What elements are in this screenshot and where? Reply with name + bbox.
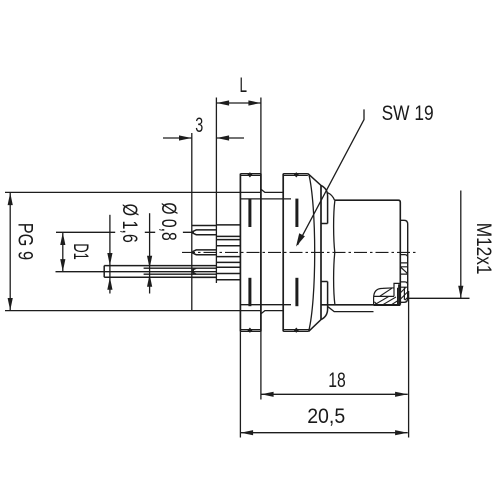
arrow SW19 leader — [296, 233, 305, 246]
pin 2 (middle) — [193, 250, 216, 255]
dim line 18 — [261, 393, 408, 395]
nut right face — [320, 185, 322, 319]
flange tick diamond bottom — [247, 328, 252, 333]
flange groove bar top — [248, 199, 251, 227]
svg-text:20,5: 20,5 — [307, 405, 345, 428]
ext lines PG9 — [5, 192, 261, 310]
leader SW19 — [298, 109, 365, 245]
seal bulge arc — [334, 200, 335, 305]
svg-text:3: 3 — [195, 114, 203, 137]
flange tick diamond top — [247, 172, 252, 177]
wire Ø0,8 core inner — [144, 268, 217, 274]
arrows 20,5 — [241, 430, 254, 435]
ext line right end 18/20,5 — [408, 291, 410, 438]
seal bottom edge — [328, 307, 374, 312]
dim line M12x1 — [460, 191, 462, 299]
dim line 3 — [163, 137, 244, 139]
nut tick diamond bottom — [294, 328, 299, 333]
pin 1 (top, Ø0,8) — [193, 230, 216, 235]
wire Ø1,6 tube outer — [104, 266, 216, 278]
nut groove bar top — [295, 199, 298, 227]
dim line L — [216, 102, 261, 104]
PG9 neck — [240, 189, 291, 313]
arrows PG9 — [8, 193, 13, 206]
contact section block — [374, 283, 401, 305]
mating sleeve — [400, 220, 407, 302]
arrow M12x1 — [458, 286, 463, 299]
dim line Ø0,8 — [149, 213, 151, 293]
svg-text:L: L — [239, 74, 247, 97]
section hatching — [374, 288, 407, 306]
arrows L — [217, 100, 230, 105]
arrows D1 — [60, 233, 65, 246]
contact bar section — [398, 284, 400, 305]
arrows Ø0,8 — [147, 256, 152, 268]
ext line M12 bottom — [408, 297, 470, 299]
svg-text:Ø 0,8: Ø 0,8 — [157, 202, 180, 240]
ext line insulator face — [215, 98, 217, 284]
arrows 3 — [179, 135, 192, 140]
dim line Ø1,6 — [109, 215, 111, 294]
svg-text:D1: D1 — [69, 243, 92, 260]
insulator body stack — [216, 225, 240, 280]
ext line flange left / 20,5 left — [239, 331, 241, 437]
dim line 20,5 — [240, 432, 407, 434]
centerline — [182, 251, 417, 253]
pin contact holder block — [192, 226, 217, 278]
nut tick diamond top — [294, 172, 299, 177]
nut facet arc — [309, 174, 315, 331]
ext line pin tip — [191, 133, 193, 311]
svg-text:18: 18 — [328, 369, 346, 392]
ext line flange right / L right / 18 left — [260, 98, 262, 400]
dim line PG9 — [9, 192, 11, 310]
svg-text:PG 9: PG 9 — [13, 223, 36, 260]
keyway section lines — [400, 255, 407, 300]
flange — [240, 174, 261, 332]
pin 3 (bottom) tip chamfer — [193, 268, 196, 274]
nut chamfer top — [308, 174, 328, 224]
ext lines D1 — [56, 232, 217, 271]
M12 body — [321, 200, 401, 305]
nut chamfer bottom — [309, 282, 328, 332]
arrows Ø1,6 — [107, 253, 112, 266]
svg-text:M12x1: M12x1 — [472, 223, 495, 275]
hex nut SW19 — [282, 174, 284, 332]
nut-body junction arc top — [328, 193, 335, 200]
flange groove bar bottom — [248, 278, 251, 306]
svg-text:Ø 1,6: Ø 1,6 — [118, 204, 141, 243]
svg-text:SW 19: SW 19 — [382, 102, 434, 125]
dim line D1 — [62, 232, 64, 271]
nut groove bar bottom — [295, 278, 298, 306]
arrows 18 — [261, 392, 274, 397]
